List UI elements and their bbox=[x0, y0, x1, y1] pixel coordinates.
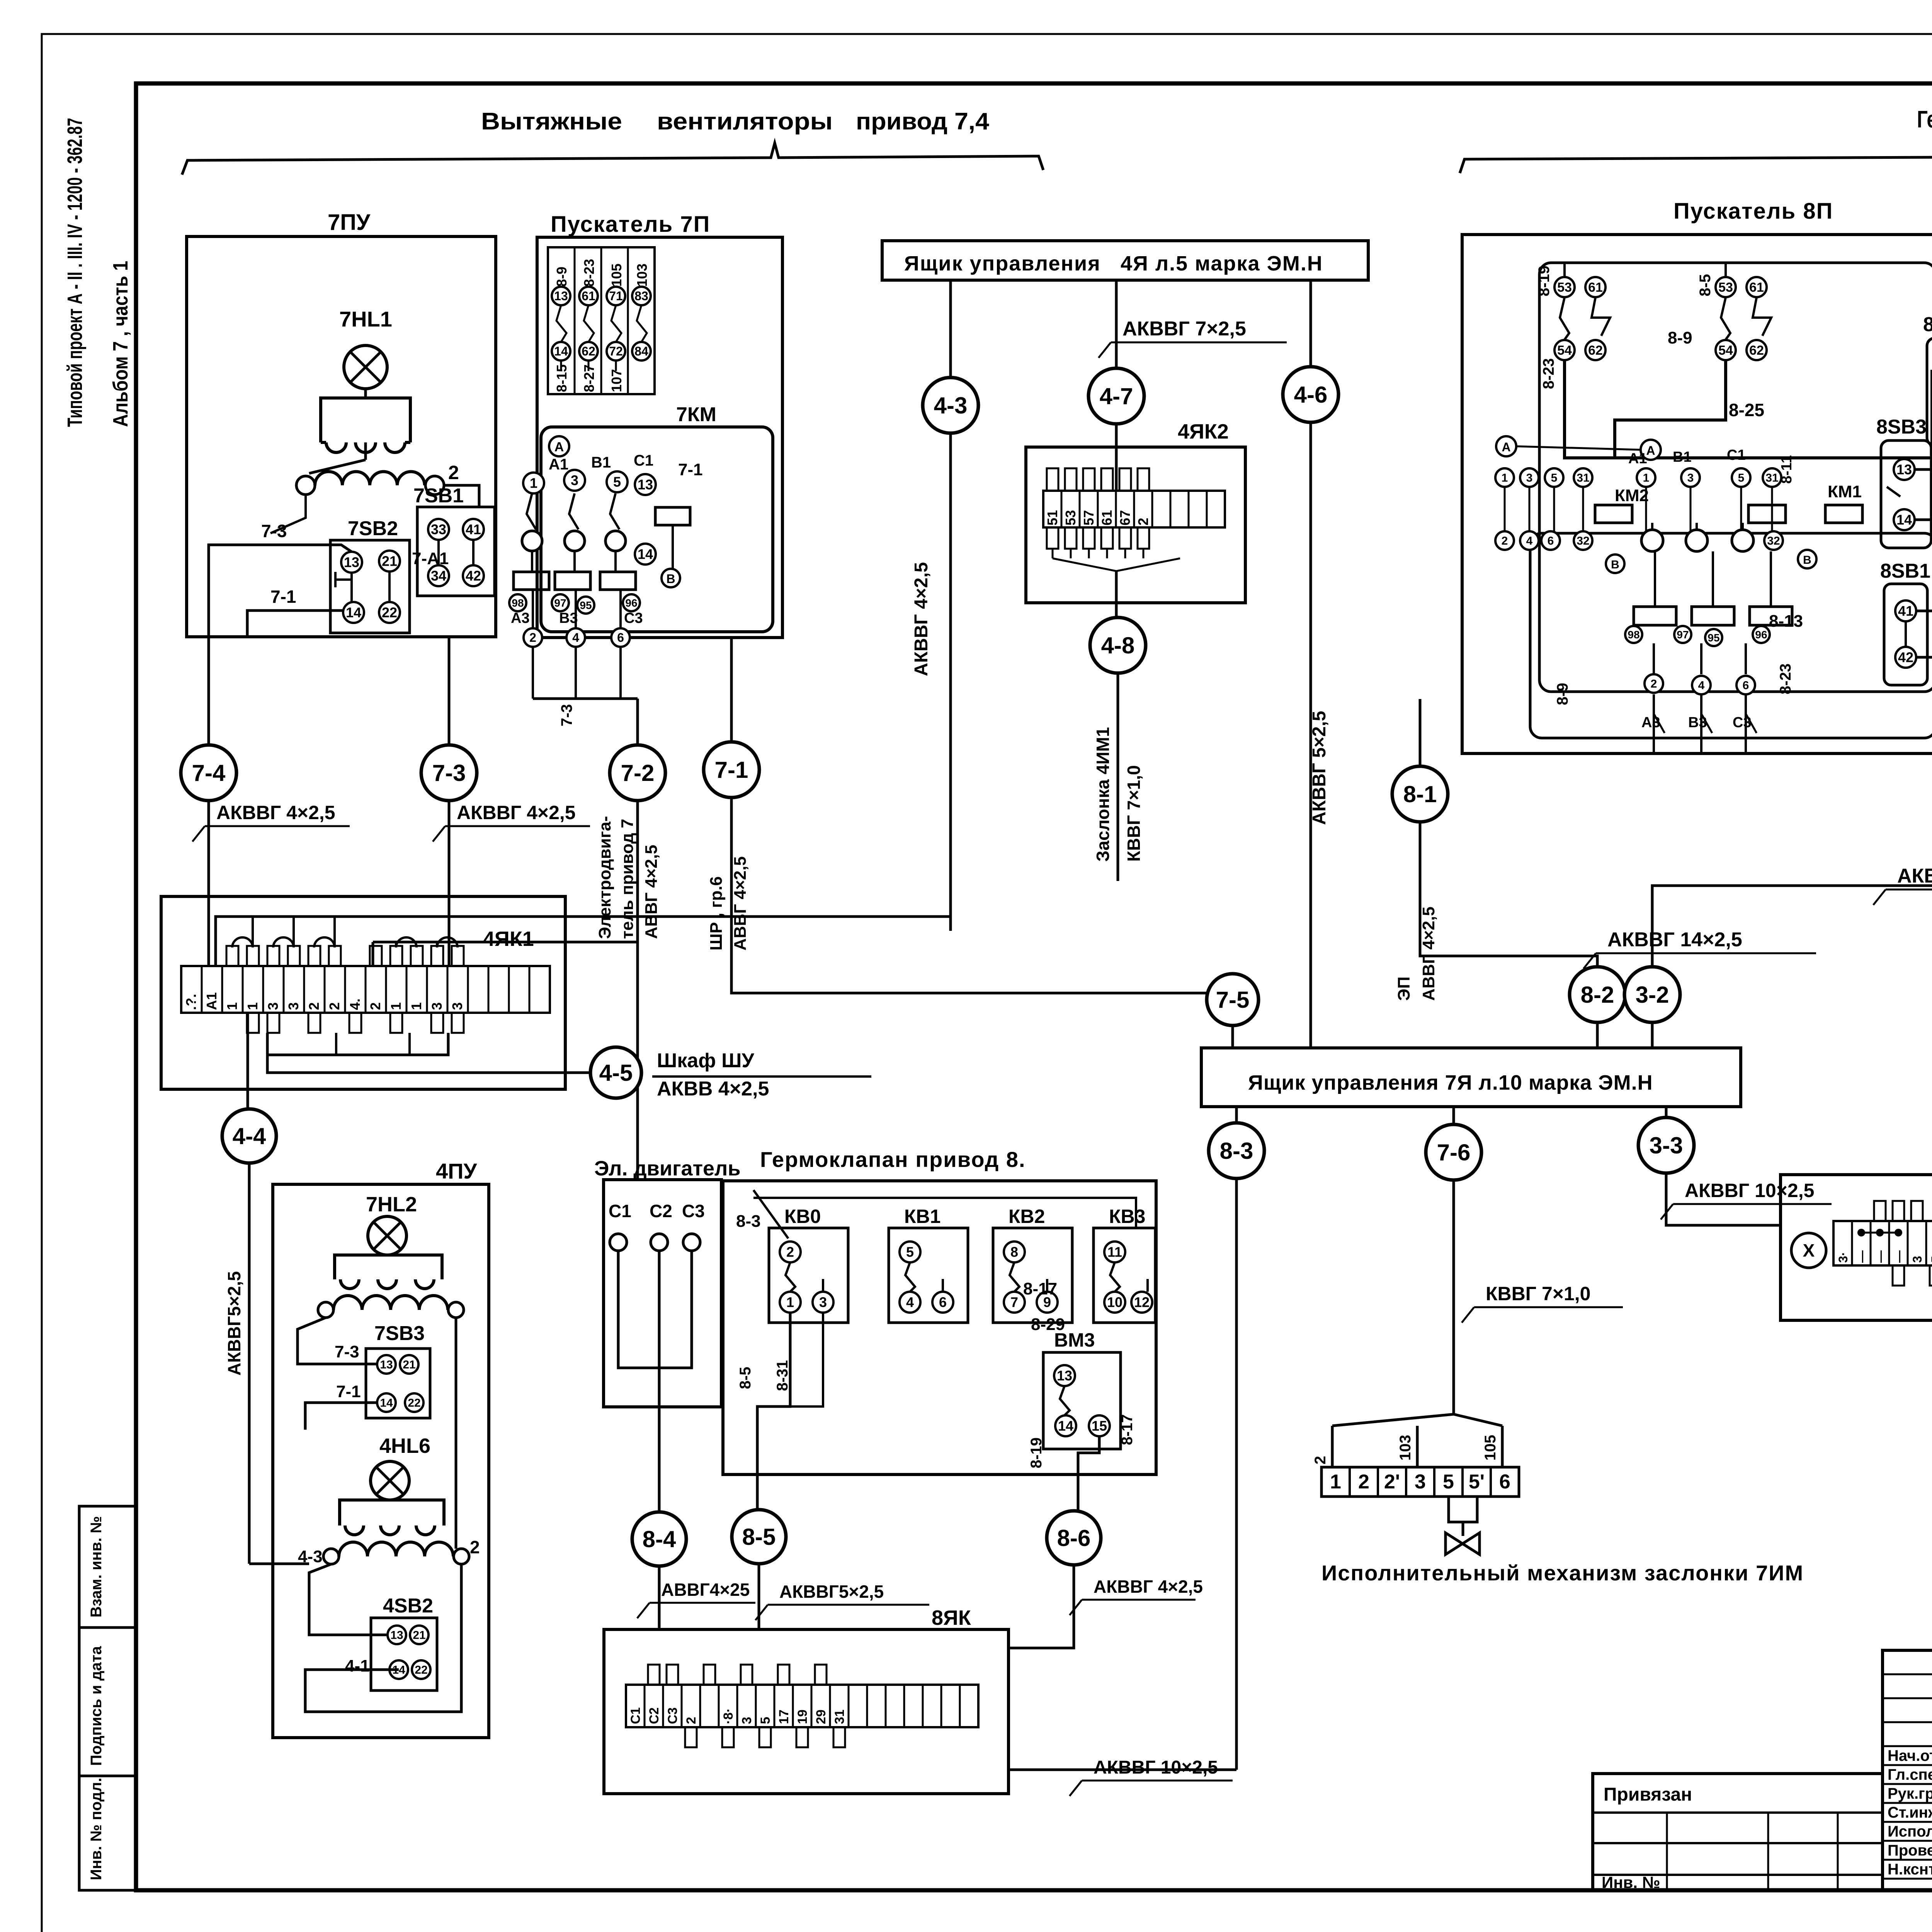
svg-text:В: В bbox=[1611, 558, 1619, 571]
svg-text:С1: С1 bbox=[628, 1708, 643, 1724]
svg-text:105: 105 bbox=[609, 264, 624, 287]
svg-text:5: 5 bbox=[1738, 472, 1745, 485]
svg-text:В1: В1 bbox=[591, 454, 611, 471]
svg-text:2: 2 bbox=[1135, 518, 1151, 526]
svg-text:105: 105 bbox=[1482, 1435, 1499, 1461]
svg-text:5: 5 bbox=[1929, 1256, 1932, 1263]
svg-text:22: 22 bbox=[408, 1397, 420, 1410]
svg-text:7-А1: 7-А1 bbox=[412, 549, 449, 568]
svg-text:7-1: 7-1 bbox=[336, 1382, 361, 1401]
svg-text:4ПУ: 4ПУ bbox=[436, 1159, 477, 1183]
svg-text:2': 2' bbox=[1384, 1471, 1400, 1493]
svg-text:Заслонка 4ИМ1: Заслонка 4ИМ1 bbox=[1093, 727, 1113, 862]
svg-text:2: 2 bbox=[1358, 1471, 1369, 1493]
svg-text:4-8: 4-8 bbox=[1101, 633, 1135, 658]
svg-text:22: 22 bbox=[382, 605, 397, 621]
svg-text:С3: С3 bbox=[682, 1201, 705, 1221]
svg-text:13: 13 bbox=[344, 554, 359, 570]
svg-text:4-4: 4-4 bbox=[233, 1123, 266, 1149]
svg-text:5: 5 bbox=[758, 1717, 773, 1724]
svg-text:Эл. двигатель: Эл. двигатель bbox=[594, 1157, 741, 1180]
svg-text:8-5: 8-5 bbox=[742, 1524, 776, 1550]
svg-text:8SB3: 8SB3 bbox=[1876, 416, 1927, 438]
svg-text:Инв. №: Инв. № bbox=[1602, 1873, 1660, 1891]
svg-text:АКВВГ 10×2,5: АКВВГ 10×2,5 bbox=[1094, 1757, 1218, 1778]
svg-text:2: 2 bbox=[470, 1537, 480, 1557]
svg-text:5: 5 bbox=[1551, 472, 1558, 485]
svg-text:7-5: 7-5 bbox=[1216, 987, 1250, 1013]
svg-text:7: 7 bbox=[1010, 1294, 1018, 1310]
svg-text:8-19: 8-19 bbox=[1028, 1437, 1045, 1468]
svg-text:96: 96 bbox=[1755, 629, 1767, 641]
svg-text:3: 3 bbox=[449, 1002, 465, 1010]
svg-text:7ПУ: 7ПУ bbox=[328, 210, 371, 235]
svg-text:2: 2 bbox=[1651, 678, 1657, 690]
svg-text:1: 1 bbox=[530, 475, 537, 491]
svg-text:7SB2: 7SB2 bbox=[348, 517, 398, 540]
svg-text:6: 6 bbox=[1499, 1471, 1510, 1493]
svg-text:АКВВ 4×2,5: АКВВ 4×2,5 bbox=[657, 1078, 769, 1100]
svg-text:8-6: 8-6 bbox=[1057, 1525, 1091, 1551]
svg-text:4-1: 4-1 bbox=[345, 1656, 370, 1675]
svg-text:—: — bbox=[1855, 1250, 1869, 1263]
svg-text:Инв. № подл.: Инв. № подл. bbox=[88, 1778, 105, 1880]
svg-text:С1: С1 bbox=[634, 452, 653, 469]
svg-text:6: 6 bbox=[617, 631, 624, 645]
svg-text:61: 61 bbox=[582, 289, 595, 303]
svg-text:ШР , гр.6: ШР , гр.6 bbox=[707, 876, 726, 951]
svg-text:7-1: 7-1 bbox=[270, 587, 296, 607]
svg-text:7-4: 7-4 bbox=[192, 760, 226, 786]
svg-text:4-5: 4-5 bbox=[599, 1060, 633, 1086]
svg-text:42: 42 bbox=[1898, 650, 1913, 665]
svg-text:8-9: 8-9 bbox=[1668, 328, 1692, 347]
svg-text:Гл.спец.: Гл.спец. bbox=[1888, 1766, 1932, 1783]
svg-text:4: 4 bbox=[1698, 679, 1705, 692]
svg-text:8-31: 8-31 bbox=[774, 1360, 791, 1391]
svg-text:АКВВГ 4×2,5: АКВВГ 4×2,5 bbox=[1094, 1577, 1203, 1597]
svg-text:АКВВГ 14×2,5: АКВВГ 14×2,5 bbox=[1897, 865, 1932, 887]
svg-text:34: 34 bbox=[431, 568, 446, 584]
svg-text:Исполн.: Исполн. bbox=[1888, 1823, 1932, 1840]
svg-text:7-1: 7-1 bbox=[678, 460, 703, 479]
svg-text:вентиляторы: вентиляторы bbox=[657, 108, 833, 135]
svg-text:13: 13 bbox=[1896, 462, 1912, 478]
svg-text:1: 1 bbox=[1643, 472, 1650, 485]
svg-text:Гермоклапаны: Гермоклапаны bbox=[1917, 106, 1932, 133]
svg-text:62: 62 bbox=[1588, 343, 1603, 358]
svg-text:10: 10 bbox=[1107, 1294, 1122, 1310]
svg-text:Взам. инв. №: Взам. инв. № bbox=[88, 1516, 105, 1617]
svg-text:7SB1: 7SB1 bbox=[413, 485, 464, 507]
svg-text:61: 61 bbox=[1749, 280, 1764, 295]
svg-text:7SB3: 7SB3 bbox=[374, 1322, 425, 1345]
svg-text:8-5: 8-5 bbox=[737, 1367, 754, 1389]
svg-text:4: 4 bbox=[906, 1294, 914, 1310]
svg-text:8-23: 8-23 bbox=[581, 259, 597, 287]
svg-text:61: 61 bbox=[1588, 280, 1603, 295]
svg-text:32: 32 bbox=[1767, 535, 1780, 548]
svg-text:КВ0: КВ0 bbox=[784, 1206, 821, 1227]
svg-text:97: 97 bbox=[1677, 629, 1689, 641]
svg-text:4ЯК1: 4ЯК1 bbox=[483, 927, 534, 951]
svg-text:7-1: 7-1 bbox=[715, 757, 748, 783]
svg-text:4-7: 4-7 bbox=[1100, 383, 1133, 409]
svg-text:7-3: 7-3 bbox=[432, 760, 466, 786]
svg-text:Ящик управления: Ящик управления bbox=[904, 252, 1101, 275]
svg-text:4-3: 4-3 bbox=[298, 1547, 323, 1566]
svg-text:.?.: .?. bbox=[183, 994, 199, 1010]
svg-text:29: 29 bbox=[814, 1709, 828, 1724]
svg-text:2: 2 bbox=[529, 631, 536, 645]
svg-text:АВВГ 4×2,5: АВВГ 4×2,5 bbox=[1419, 906, 1438, 1001]
svg-text:Пускатель 7П: Пускатель 7П bbox=[551, 212, 710, 237]
svg-text:А1: А1 bbox=[1628, 451, 1647, 467]
svg-text:41: 41 bbox=[1898, 603, 1913, 619]
svg-text:14: 14 bbox=[554, 344, 568, 358]
svg-text:8-1: 8-1 bbox=[1403, 781, 1437, 807]
svg-text:1: 1 bbox=[1502, 472, 1508, 485]
svg-text:АКВВГ5×2,5: АКВВГ5×2,5 bbox=[224, 1271, 244, 1376]
svg-text:АКВВГ 5×2,5: АКВВГ 5×2,5 bbox=[1309, 711, 1330, 825]
svg-text:53: 53 bbox=[1063, 510, 1078, 526]
svg-text:8-25: 8-25 bbox=[1729, 400, 1764, 420]
svg-text:АКВВГ 4×2,5: АКВВГ 4×2,5 bbox=[216, 802, 335, 823]
svg-text:61: 61 bbox=[1099, 510, 1115, 526]
svg-text:13: 13 bbox=[1057, 1368, 1072, 1384]
svg-text:3: 3 bbox=[1687, 472, 1694, 485]
svg-text:1: 1 bbox=[388, 1002, 404, 1010]
svg-text:привод 7,4: привод 7,4 bbox=[856, 108, 990, 135]
svg-text:8-17: 8-17 bbox=[1023, 1279, 1057, 1298]
svg-text:С2: С2 bbox=[650, 1201, 672, 1221]
svg-text:КВ1: КВ1 bbox=[904, 1206, 940, 1227]
svg-text:Ящик управления 7Я л.10: Ящик управления 7Я л.10 марка ЭМ.Н bbox=[1248, 1071, 1653, 1094]
svg-text:13: 13 bbox=[554, 289, 568, 303]
svg-text:3: 3 bbox=[571, 473, 578, 488]
svg-text:8-2: 8-2 bbox=[1581, 982, 1614, 1008]
svg-text:—: — bbox=[1892, 1250, 1906, 1263]
svg-text:6: 6 bbox=[939, 1294, 947, 1310]
svg-text:3: 3 bbox=[740, 1717, 754, 1724]
svg-text:7HL1: 7HL1 bbox=[339, 307, 392, 331]
svg-text:4-6: 4-6 bbox=[1294, 382, 1328, 408]
svg-text:4: 4 bbox=[1526, 535, 1533, 548]
svg-text:А3: А3 bbox=[511, 610, 530, 626]
svg-text:—: — bbox=[1873, 1250, 1887, 1263]
svg-text:8-3: 8-3 bbox=[1220, 1138, 1253, 1164]
svg-text:4.: 4. bbox=[347, 998, 363, 1010]
svg-text:8-29: 8-29 bbox=[1031, 1315, 1065, 1334]
svg-text:4: 4 bbox=[572, 631, 579, 645]
svg-text:КВ3: КВ3 bbox=[1109, 1206, 1145, 1227]
svg-text:14: 14 bbox=[638, 546, 653, 562]
svg-text:В1: В1 bbox=[1673, 449, 1692, 465]
svg-text:14: 14 bbox=[1896, 512, 1912, 528]
svg-text:1: 1 bbox=[786, 1294, 794, 1310]
svg-text:14: 14 bbox=[380, 1397, 393, 1410]
svg-text:14: 14 bbox=[1058, 1418, 1073, 1434]
svg-text:13: 13 bbox=[390, 1629, 403, 1642]
svg-text:7HL2: 7HL2 bbox=[366, 1193, 417, 1216]
svg-text:КВВГ 7×1,0: КВВГ 7×1,0 bbox=[1124, 765, 1144, 862]
svg-text:АКВВГ 10×2,5: АКВВГ 10×2,5 bbox=[1685, 1180, 1814, 1201]
svg-text:4-3: 4-3 bbox=[934, 393, 968, 418]
svg-text:3: 3 bbox=[819, 1294, 827, 1310]
svg-text:8-17: 8-17 bbox=[1119, 1414, 1136, 1445]
svg-text:21: 21 bbox=[382, 553, 397, 569]
svg-text:51: 51 bbox=[1044, 510, 1060, 526]
svg-text:2: 2 bbox=[306, 1002, 322, 1010]
svg-text:4ЯК2: 4ЯК2 bbox=[1178, 420, 1229, 443]
svg-text:19: 19 bbox=[795, 1709, 810, 1724]
svg-text:Н.кснтр.: Н.кснтр. bbox=[1888, 1861, 1932, 1878]
svg-text:А: А bbox=[1502, 440, 1510, 454]
svg-text:8ЯК: 8ЯК bbox=[932, 1606, 971, 1629]
svg-text:8-23: 8-23 bbox=[1540, 358, 1557, 389]
svg-text:53: 53 bbox=[1557, 280, 1572, 295]
svg-text:31: 31 bbox=[1765, 472, 1778, 485]
svg-text:96: 96 bbox=[625, 597, 637, 609]
svg-text:3: 3 bbox=[1415, 1471, 1426, 1493]
svg-text:8-23: 8-23 bbox=[1777, 663, 1794, 694]
svg-text:98: 98 bbox=[512, 597, 524, 609]
svg-text:3-2: 3-2 bbox=[1636, 982, 1669, 1008]
svg-text:5: 5 bbox=[613, 474, 621, 490]
svg-text:А1: А1 bbox=[204, 992, 219, 1010]
svg-text:Шкаф ШУ: Шкаф ШУ bbox=[657, 1049, 754, 1072]
svg-text:42: 42 bbox=[466, 568, 481, 584]
svg-text:8-11: 8-11 bbox=[1779, 455, 1795, 484]
svg-text:А3: А3 bbox=[1641, 714, 1660, 731]
svg-text:54: 54 bbox=[1718, 343, 1733, 358]
svg-text:Вытяжные: Вытяжные bbox=[481, 108, 622, 135]
svg-text:2: 2 bbox=[367, 1002, 383, 1010]
svg-text:1: 1 bbox=[1330, 1471, 1341, 1493]
svg-text:Ст.инж.: Ст.инж. bbox=[1888, 1804, 1932, 1821]
svg-text:57: 57 bbox=[1081, 510, 1097, 526]
svg-text:5: 5 bbox=[906, 1244, 914, 1260]
svg-text:22: 22 bbox=[415, 1664, 427, 1677]
svg-text:98: 98 bbox=[1628, 629, 1639, 641]
svg-text:3: 3 bbox=[1526, 472, 1533, 485]
svg-text:Гермоклапан привод 8.: Гермоклапан привод 8. bbox=[760, 1147, 1026, 1172]
svg-text:15: 15 bbox=[1092, 1418, 1107, 1434]
svg-text:X: X bbox=[1803, 1240, 1815, 1260]
svg-text:95: 95 bbox=[580, 599, 592, 611]
svg-text:3: 3 bbox=[265, 1002, 281, 1010]
svg-text:8: 8 bbox=[1010, 1244, 1018, 1260]
svg-text:7-6: 7-6 bbox=[1437, 1139, 1471, 1165]
svg-text:АВВГ4×25: АВВГ4×25 bbox=[661, 1580, 750, 1600]
svg-text:62: 62 bbox=[582, 344, 595, 358]
svg-text:8-4: 8-4 bbox=[643, 1526, 676, 1552]
svg-text:54: 54 bbox=[1557, 343, 1572, 358]
svg-text:Привязан: Привязан bbox=[1604, 1784, 1692, 1805]
svg-text:А: А bbox=[1646, 444, 1655, 457]
svg-text:33: 33 bbox=[431, 522, 446, 537]
svg-text:8-19: 8-19 bbox=[1536, 265, 1553, 296]
svg-text:1: 1 bbox=[408, 1002, 424, 1010]
svg-text:84: 84 bbox=[634, 344, 648, 358]
svg-text:КВ2: КВ2 bbox=[1009, 1206, 1045, 1227]
svg-text:7-2: 7-2 bbox=[621, 760, 655, 786]
svg-text:Подпись и дата: Подпись и дата bbox=[88, 1646, 105, 1766]
svg-text:А1: А1 bbox=[549, 456, 568, 473]
svg-text:4HL6: 4HL6 bbox=[379, 1434, 430, 1458]
svg-text:8-9: 8-9 bbox=[554, 267, 570, 287]
svg-text:21: 21 bbox=[413, 1629, 425, 1642]
svg-text:Исполнительный механизм зас: Исполнительный механизм заслонки 7ИМ bbox=[1321, 1561, 1804, 1585]
svg-text:АКВВГ 7×2,5: АКВВГ 7×2,5 bbox=[1122, 318, 1246, 340]
svg-text:С2: С2 bbox=[647, 1708, 662, 1724]
svg-text:8-13: 8-13 bbox=[1769, 612, 1803, 631]
svg-text:12: 12 bbox=[1134, 1294, 1150, 1310]
svg-text:21: 21 bbox=[403, 1359, 415, 1371]
svg-text:4Я л.5 марка ЭМ.Н: 4Я л.5 марка ЭМ.Н bbox=[1121, 252, 1323, 275]
svg-text:Электродвига-: Электродвига- bbox=[595, 816, 614, 939]
svg-text:2: 2 bbox=[448, 462, 459, 483]
svg-text:95: 95 bbox=[1708, 632, 1719, 644]
svg-text:31: 31 bbox=[1577, 472, 1589, 485]
svg-text:А: А bbox=[554, 440, 564, 454]
svg-text:97: 97 bbox=[554, 597, 566, 609]
svg-text:С3: С3 bbox=[624, 610, 643, 626]
svg-text:8SB2: 8SB2 bbox=[1923, 313, 1932, 336]
svg-text:С1: С1 bbox=[609, 1201, 631, 1221]
svg-text:53: 53 bbox=[1718, 280, 1733, 295]
svg-text:62: 62 bbox=[1749, 343, 1764, 358]
svg-text:7КМ: 7КМ bbox=[676, 403, 716, 426]
svg-text:8-9: 8-9 bbox=[1554, 683, 1571, 705]
svg-text:КМ2: КМ2 bbox=[1615, 486, 1649, 505]
svg-text:7-3: 7-3 bbox=[335, 1342, 359, 1361]
svg-text:32: 32 bbox=[1577, 535, 1589, 548]
svg-text:2: 2 bbox=[1312, 1456, 1329, 1464]
svg-text:Пускатель 8П: Пускатель 8П bbox=[1673, 199, 1833, 224]
svg-text:В: В bbox=[1803, 554, 1811, 566]
svg-text:ЭП: ЭП bbox=[1395, 976, 1413, 1001]
svg-text:АКВВГ5×2,5: АКВВГ5×2,5 bbox=[779, 1582, 884, 1602]
svg-text:3: 3 bbox=[286, 1002, 301, 1010]
svg-text:АКВВГ 4×2,5: АКВВГ 4×2,5 bbox=[457, 802, 576, 823]
svg-text:3: 3 bbox=[1910, 1256, 1924, 1263]
svg-text:17: 17 bbox=[777, 1709, 791, 1724]
svg-text:тель привод 7: тель привод 7 bbox=[618, 819, 637, 939]
svg-text:С1: С1 bbox=[1727, 447, 1746, 463]
svg-text:В: В bbox=[666, 572, 675, 586]
svg-text:С3: С3 bbox=[665, 1708, 680, 1724]
svg-text:72: 72 bbox=[609, 344, 623, 358]
svg-text:КВВГ 7×1,0: КВВГ 7×1,0 bbox=[1486, 1283, 1590, 1304]
svg-text:АКВВГ 4×2,5: АКВВГ 4×2,5 bbox=[911, 562, 932, 676]
svg-text:Типовой проект А - II . III.: Типовой проект А - II . III. IV - 1200 -… bbox=[63, 118, 87, 427]
svg-text:2: 2 bbox=[786, 1244, 794, 1260]
svg-text:1: 1 bbox=[245, 1002, 260, 1010]
svg-text:107: 107 bbox=[609, 369, 624, 392]
svg-text:5': 5' bbox=[1469, 1471, 1485, 1493]
svg-text:3-3: 3-3 bbox=[1650, 1133, 1683, 1158]
svg-text:Нач.отд.: Нач.отд. bbox=[1888, 1747, 1932, 1764]
svg-text:2: 2 bbox=[684, 1717, 699, 1724]
svg-text:13: 13 bbox=[638, 477, 653, 493]
svg-text:83: 83 bbox=[634, 289, 648, 303]
svg-text:103: 103 bbox=[1397, 1435, 1414, 1461]
svg-text:6: 6 bbox=[1743, 679, 1749, 692]
svg-text:АВВГ 4×2,5: АВВГ 4×2,5 bbox=[642, 845, 661, 939]
svg-text:4SB2: 4SB2 bbox=[383, 1595, 433, 1617]
svg-text:8SB1: 8SB1 bbox=[1880, 560, 1930, 582]
svg-text:6: 6 bbox=[1548, 535, 1554, 548]
svg-text:3: 3 bbox=[429, 1002, 445, 1010]
svg-text:103: 103 bbox=[634, 264, 650, 287]
svg-text:31: 31 bbox=[832, 1709, 847, 1724]
svg-text:3·: 3· bbox=[1836, 1252, 1850, 1263]
svg-text:2: 2 bbox=[327, 1002, 342, 1010]
svg-text:14: 14 bbox=[346, 605, 361, 621]
svg-text:11: 11 bbox=[1107, 1244, 1122, 1260]
svg-text:7-3: 7-3 bbox=[558, 704, 575, 726]
svg-text:8-5: 8-5 bbox=[1697, 274, 1714, 296]
svg-text:13: 13 bbox=[380, 1359, 393, 1371]
svg-text:Провер.: Провер. bbox=[1888, 1842, 1932, 1859]
svg-text:67: 67 bbox=[1117, 510, 1133, 526]
svg-text:5: 5 bbox=[1443, 1471, 1454, 1493]
svg-text:Альбом 7 , часть 1: Альбом 7 , часть 1 bbox=[109, 261, 132, 427]
svg-text:АКВВГ 14×2,5: АКВВГ 14×2,5 bbox=[1607, 929, 1742, 951]
svg-text:1: 1 bbox=[224, 1002, 240, 1010]
svg-text:71: 71 bbox=[609, 289, 623, 303]
svg-text:·8·: ·8· bbox=[721, 1708, 736, 1724]
svg-text:41: 41 bbox=[466, 522, 481, 537]
svg-text:АВВГ 4×2,5: АВВГ 4×2,5 bbox=[731, 856, 750, 951]
svg-text:Рук.гр: Рук.гр bbox=[1888, 1785, 1932, 1802]
svg-text:КМ1: КМ1 bbox=[1828, 482, 1862, 501]
svg-text:8-3: 8-3 bbox=[736, 1212, 761, 1231]
svg-text:2: 2 bbox=[1502, 535, 1508, 548]
